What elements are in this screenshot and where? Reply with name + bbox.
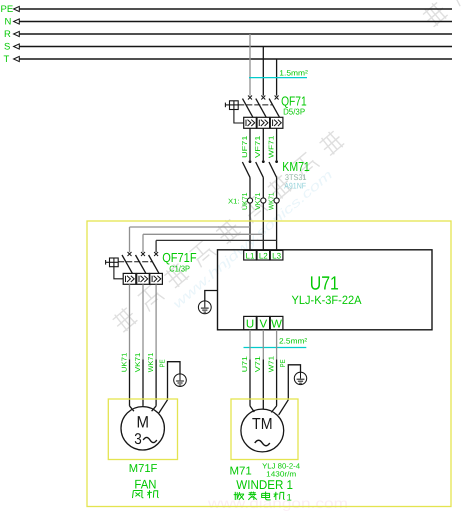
svg-text:V: V <box>259 319 267 331</box>
svg-text:M71: M71 <box>230 465 252 477</box>
wire WF71 <box>276 128 278 160</box>
svg-text:3: 3 <box>134 431 142 448</box>
pin L1 <box>244 250 257 260</box>
terminal X1:3 <box>274 198 279 203</box>
wire tap VK71 to QF71F <box>143 233 263 235</box>
svg-text:1: 1 <box>287 492 292 503</box>
node N bus line <box>5 16 453 27</box>
wire X1 to drive input <box>249 203 251 250</box>
pin L3 <box>270 250 283 260</box>
svg-text:R: R <box>4 29 11 40</box>
node R bus line <box>4 29 452 40</box>
ground drive PE <box>198 301 211 314</box>
svg-text:D5/3P: D5/3P <box>283 107 305 117</box>
svg-text:U71: U71 <box>310 273 339 294</box>
svg-text:L2: L2 <box>259 251 268 260</box>
wire W71 to winder <box>276 330 278 360</box>
svg-text:PE: PE <box>280 359 287 367</box>
svg-text:2.5mm²: 2.5mm² <box>279 337 308 346</box>
svg-text:U71: U71 <box>242 356 249 372</box>
motor M71F enclosure box <box>108 399 177 460</box>
svg-text:N: N <box>5 16 12 27</box>
svg-text:WINDER 1: WINDER 1 <box>236 478 293 492</box>
svg-text:www.diangon.com: www.diangon.com <box>207 495 348 511</box>
svg-text:TM: TM <box>252 416 273 433</box>
enclosure panel box <box>87 221 451 507</box>
label winder chinese <box>234 492 236 500</box>
wire drive PE branch <box>205 291 218 302</box>
wire X1 to drive input <box>262 203 264 250</box>
svg-text:A91NF: A91NF <box>284 182 306 191</box>
svg-text:T: T <box>4 54 10 65</box>
svg-text:C1/3P: C1/3P <box>169 264 190 274</box>
ground winder PE <box>294 372 306 384</box>
svg-text:YLJ-K-3F-22A: YLJ-K-3F-22A <box>292 293 362 307</box>
pin U <box>244 316 257 329</box>
svg-text:W71: W71 <box>268 356 275 372</box>
svg-text:VK71: VK71 <box>135 352 142 372</box>
wire T phase drop to QF71 <box>276 59 278 96</box>
node S bus line <box>4 41 452 52</box>
svg-text:UF71: UF71 <box>242 135 249 158</box>
svg-text:PE: PE <box>1 4 14 15</box>
cable size marker 2.5mm2 <box>244 347 307 349</box>
wire S phase drop to QF71 <box>262 47 264 96</box>
wire X1 to drive input <box>276 203 278 250</box>
node PE bus line <box>1 4 453 15</box>
svg-text:1.5mm²: 1.5mm² <box>279 69 308 78</box>
wire fan VK71 <box>142 284 144 359</box>
svg-text:M: M <box>136 414 149 432</box>
svg-text:W: W <box>271 319 282 331</box>
svg-text:PE: PE <box>159 359 166 367</box>
svg-text:S: S <box>4 41 10 52</box>
wire V71 to winder <box>262 330 264 360</box>
svg-text:1430r/m: 1430r/m <box>266 469 296 478</box>
VFD drive U71 box <box>218 250 433 330</box>
svg-text:L3: L3 <box>272 251 281 260</box>
circuit breaker QF71F <box>106 252 163 284</box>
ground fan PE <box>174 374 187 387</box>
wire tap UK71 to QF71F <box>130 226 251 228</box>
svg-text:VF71: VF71 <box>255 135 262 158</box>
svg-text:X1:: X1: <box>228 198 240 205</box>
wire U71 to winder <box>249 330 251 360</box>
motor M71F <box>121 400 168 450</box>
svg-text:M71F: M71F <box>129 463 158 475</box>
wire fan PE <box>168 362 181 400</box>
svg-text:WK71: WK71 <box>148 352 155 372</box>
svg-text:KM71: KM71 <box>282 159 310 174</box>
wire tap WK71 to QF71F <box>156 239 277 241</box>
terminal X1:2 <box>261 198 266 203</box>
wire R phase drop to QF71 <box>249 34 251 96</box>
pin W <box>270 316 283 329</box>
wire winder PE <box>288 365 300 400</box>
svg-text:U: U <box>246 319 254 331</box>
svg-text:FAN: FAN <box>134 477 156 491</box>
contactor KM71 <box>242 160 278 198</box>
svg-text:3TS31: 3TS31 <box>285 173 307 182</box>
svg-text:WF71: WF71 <box>268 135 275 158</box>
pin L2 <box>257 250 270 260</box>
svg-text:V71: V71 <box>255 356 262 372</box>
pin V <box>257 316 270 329</box>
circuit breaker QF71 <box>225 96 283 129</box>
label fan chinese <box>131 491 134 499</box>
node T bus line <box>4 54 453 65</box>
terminal X1:1 <box>247 198 252 203</box>
cable size marker 1.5mm2 <box>249 77 307 79</box>
wire fan WK71 <box>155 284 157 359</box>
svg-text:L1: L1 <box>246 251 255 260</box>
motor M71 enclosure box <box>231 399 298 460</box>
wire UF71 <box>249 128 251 160</box>
svg-text:UK71: UK71 <box>121 352 128 372</box>
wire fan UK71 <box>129 284 131 359</box>
wire VF71 <box>262 128 264 160</box>
motor M71 <box>241 400 288 452</box>
